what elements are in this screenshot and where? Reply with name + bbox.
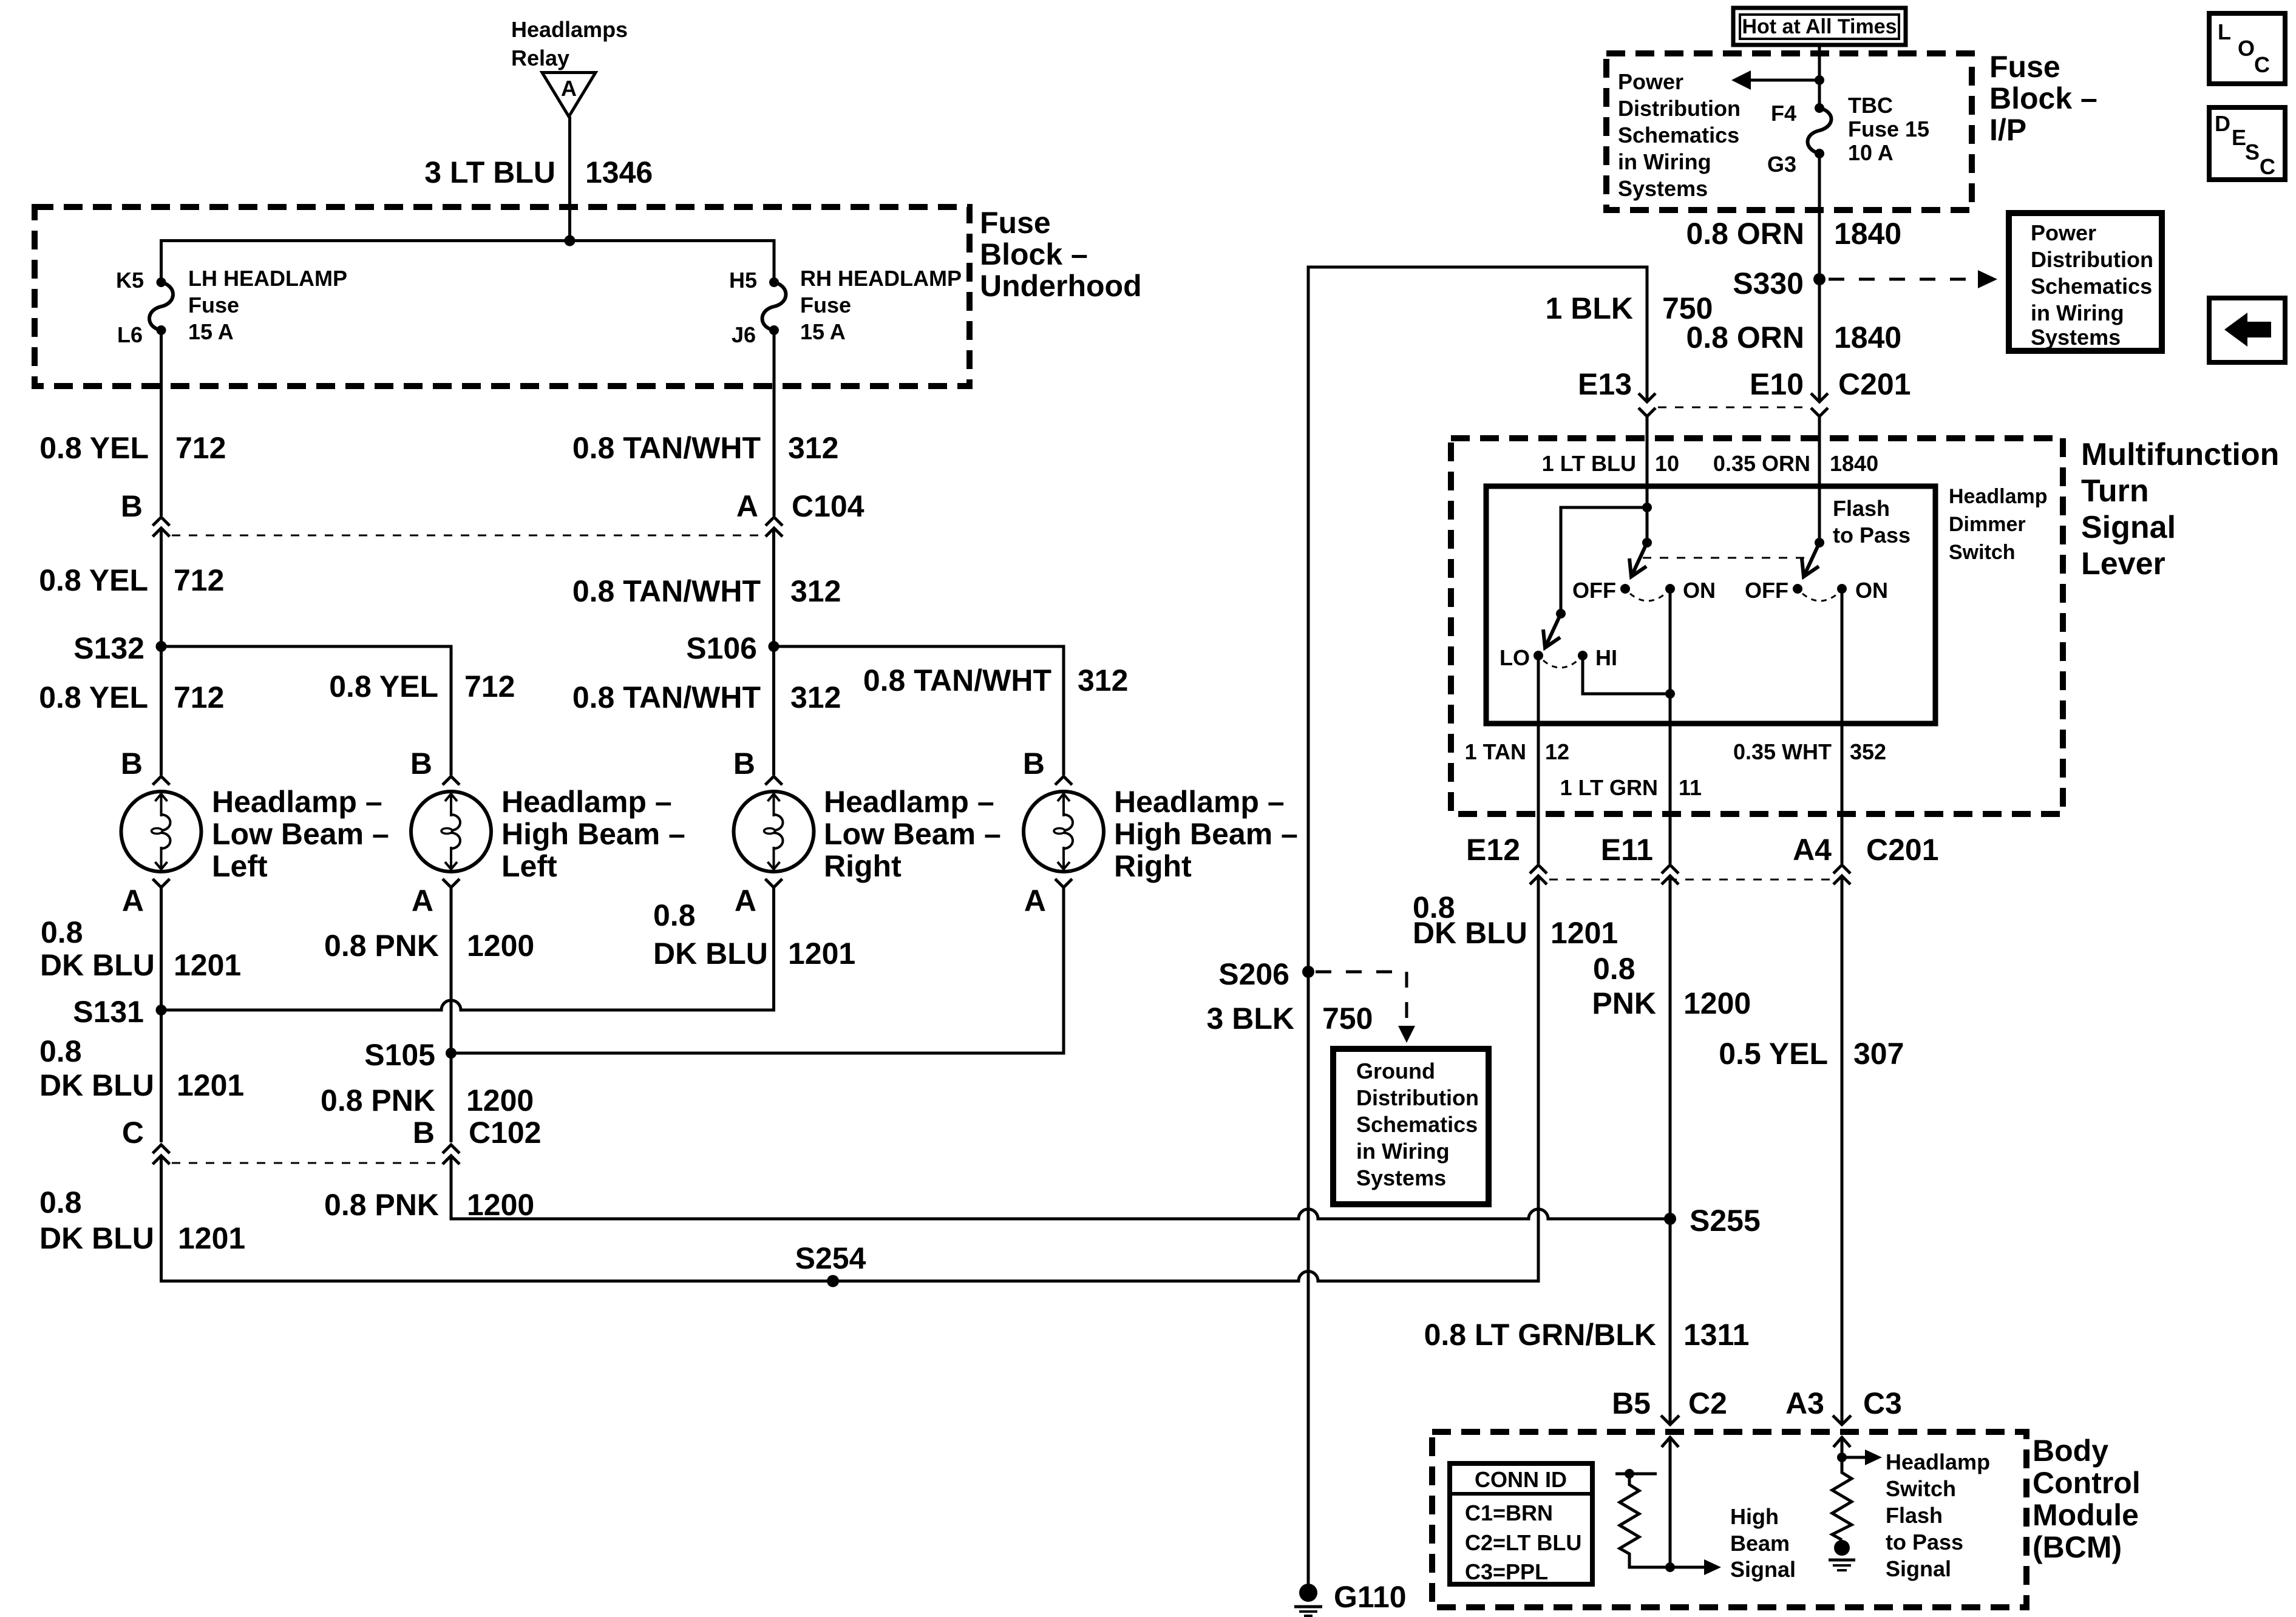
wire C104 to S132 <box>160 528 163 646</box>
pin A label lamp4 <box>1024 884 1046 918</box>
svg-text:1200: 1200 <box>1683 986 1751 1020</box>
svg-text:A: A <box>412 884 433 918</box>
pin A4 label <box>1793 833 1832 867</box>
pin B label lamp1 <box>121 747 143 781</box>
svg-text:ON: ON <box>1683 578 1716 603</box>
wire E10 into switch to flash pivot <box>1818 416 1821 543</box>
svg-text:Multifunction: Multifunction <box>2081 437 2279 472</box>
wire label 0.8 PNK 1200 lamp2 <box>324 929 534 963</box>
svg-text:Right: Right <box>1114 849 1192 883</box>
splice S132 <box>73 631 166 665</box>
svg-text:Headlamp: Headlamp <box>1886 1449 1990 1474</box>
svg-text:C2=LT BLU: C2=LT BLU <box>1465 1530 1581 1555</box>
svg-text:Switch: Switch <box>1949 541 2016 564</box>
svg-text:Systems: Systems <box>2031 325 2121 350</box>
BCM name <box>2033 1434 2141 1564</box>
headlamp switch arm pivot <box>1642 507 1652 547</box>
svg-text:1346: 1346 <box>585 155 653 189</box>
svg-text:HI: HI <box>1595 645 1617 670</box>
svg-text:Headlamp –: Headlamp – <box>501 785 672 819</box>
pin A3 label <box>1785 1386 1824 1420</box>
svg-text:0.35 WHT: 0.35 WHT <box>1733 739 1832 764</box>
svg-text:S254: S254 <box>795 1241 866 1275</box>
svg-text:D: D <box>2215 111 2230 136</box>
wire HI to ON junction <box>1583 656 1670 694</box>
wire label 0.5 YEL 307 <box>1719 1037 1904 1071</box>
wire A4 to A3 BCM <box>1841 878 1844 1425</box>
ground G110 label <box>1334 1580 1407 1614</box>
svg-text:E: E <box>2232 125 2246 150</box>
wire ON down to E11 <box>1669 589 1672 864</box>
svg-text:Headlamp –: Headlamp – <box>1114 785 1285 819</box>
svg-text:S206: S206 <box>1218 957 1289 991</box>
svg-text:in Wiring: in Wiring <box>1356 1139 1450 1164</box>
svg-text:S255: S255 <box>1690 1204 1761 1238</box>
wire label 3 BLK 750 <box>1207 1002 1373 1036</box>
fuse LH HEADLAMP 15A (K5-L6) <box>149 277 173 335</box>
contact ON headlamp switch <box>1665 578 1716 603</box>
svg-text:I/P: I/P <box>1989 113 2026 147</box>
svg-text:0.8: 0.8 <box>653 898 696 932</box>
ground distribution schematics box <box>1333 1049 1489 1204</box>
pin A label lamp3 <box>735 884 756 918</box>
svg-text:to Pass: to Pass <box>1886 1530 1963 1554</box>
svg-text:Block –: Block – <box>980 237 1088 271</box>
lamp Headlamp High Beam Left <box>411 776 491 887</box>
resistor flash to ground <box>1832 1457 1852 1540</box>
svg-text:10 A: 10 A <box>1848 140 1894 165</box>
svg-text:B: B <box>1023 747 1045 781</box>
wire J6 down to C104 <box>773 330 776 516</box>
pin E11 label <box>1601 833 1653 867</box>
wire label 0.8 DK BLU 1201 below C102 <box>39 1185 245 1255</box>
svg-text:15 A: 15 A <box>188 319 234 344</box>
junction high beam signal <box>1665 1562 1675 1572</box>
power feed arrow left <box>1731 70 1819 90</box>
wire label 1 BLK 750 <box>1546 291 1713 325</box>
BCM high beam input arrow up <box>1662 1437 1679 1567</box>
lamp1 name <box>212 785 389 883</box>
lamp Headlamp High Beam Right <box>1024 776 1104 887</box>
wire label 0.8 TAN/WHT 312 left of lamp <box>572 680 841 714</box>
svg-text:1200: 1200 <box>466 1083 534 1117</box>
wire lamp1 to S131 <box>160 887 163 1010</box>
svg-text:0.8 TAN/WHT: 0.8 TAN/WHT <box>572 574 761 608</box>
svg-text:to Pass: to Pass <box>1833 523 1911 547</box>
svg-text:S131: S131 <box>73 995 144 1029</box>
svg-text:Headlamp –: Headlamp – <box>212 785 382 819</box>
lamp3 name <box>824 785 1001 883</box>
pin K5 label <box>116 268 144 293</box>
wire label 0.8 TAN/WHT 312 branch <box>863 663 1129 697</box>
svg-text:L: L <box>2218 19 2231 44</box>
svg-text:S106: S106 <box>686 631 757 665</box>
svg-text:Right: Right <box>824 849 902 883</box>
svg-text:Low Beam –: Low Beam – <box>824 817 1001 851</box>
svg-text:Distribution: Distribution <box>2031 247 2153 272</box>
svg-text:DK BLU: DK BLU <box>39 1068 154 1102</box>
svg-text:0.8: 0.8 <box>39 1185 82 1219</box>
svg-text:0.8 ORN: 0.8 ORN <box>1686 320 1804 354</box>
pin E13 label <box>1578 367 1632 401</box>
relay A triangle symbol <box>542 73 596 117</box>
svg-text:Relay: Relay <box>511 46 569 70</box>
headlamp switch flash to pass signal label <box>1886 1449 1990 1581</box>
svg-text:High Beam –: High Beam – <box>1114 817 1298 851</box>
splice S206 <box>1218 957 1314 991</box>
flash arm with arrow <box>1802 543 1819 577</box>
connector A3 chevron <box>1833 1415 1851 1425</box>
svg-text:312: 312 <box>1078 663 1128 697</box>
svg-text:750: 750 <box>1322 1002 1373 1036</box>
svg-text:712: 712 <box>174 680 224 714</box>
svg-text:C1=BRN: C1=BRN <box>1465 1500 1553 1525</box>
svg-text:1200: 1200 <box>467 1188 534 1222</box>
fuse name RH HEADLAMP Fuse 15 A <box>800 266 962 344</box>
splice S105 <box>364 1038 457 1072</box>
connector C104 dashed line <box>172 535 763 537</box>
dimmer arm pivot <box>1556 609 1566 619</box>
svg-text:OFF: OFF <box>1572 578 1616 603</box>
wire S132 to left low beam <box>160 646 163 775</box>
wire G3 to S330 <box>1818 154 1821 279</box>
svg-text:3 LT BLU: 3 LT BLU <box>424 155 555 189</box>
svg-text:A: A <box>561 76 577 101</box>
dashed arc OFF-ON headlamp <box>1630 594 1665 601</box>
dashed arc OFF-ON flash <box>1802 594 1838 601</box>
svg-text:B: B <box>413 1116 435 1150</box>
connector C104 label <box>792 489 864 523</box>
svg-text:E12: E12 <box>1466 833 1520 867</box>
wire label 0.35 WHT 352 <box>1733 739 1886 764</box>
wire E11 to S255 <box>1669 878 1672 1219</box>
svg-text:Block –: Block – <box>1989 81 2097 115</box>
svg-text:G3: G3 <box>1767 152 1796 177</box>
contact OFF headlamp switch <box>1572 578 1630 603</box>
svg-text:312: 312 <box>790 574 841 608</box>
svg-text:Systems: Systems <box>1618 176 1708 201</box>
svg-text:S132: S132 <box>73 631 144 665</box>
svg-text:Fuse: Fuse <box>1989 50 2060 84</box>
wire C104 to S106 <box>772 528 775 646</box>
BCM pull-up stub high beam <box>1615 1469 1657 1479</box>
svg-text:Signal: Signal <box>2081 510 2176 545</box>
svg-text:H5: H5 <box>729 268 757 293</box>
svg-text:RH HEADLAMP: RH HEADLAMP <box>800 266 962 291</box>
flash arm pivot <box>1815 538 1824 547</box>
pin G3 label <box>1767 152 1796 177</box>
svg-text:C102: C102 <box>469 1116 542 1150</box>
svg-text:Headlamp –: Headlamp – <box>824 785 994 819</box>
splice S254 <box>795 1241 866 1287</box>
svg-text:A: A <box>1024 884 1046 918</box>
headlamp switch arm with arrow <box>1629 543 1647 577</box>
svg-text:0.8 YEL: 0.8 YEL <box>39 563 148 597</box>
svg-text:E11: E11 <box>1601 833 1653 867</box>
power distribution schematics box right <box>2009 213 2162 351</box>
svg-text:DK BLU: DK BLU <box>39 1221 154 1255</box>
svg-text:LO: LO <box>1500 645 1530 670</box>
pin H5 label <box>729 268 757 293</box>
fuse RH HEADLAMP 15A (H5-J6) <box>763 277 786 335</box>
wire lamp2 to S105 <box>450 887 453 1053</box>
svg-text:0.8 TAN/WHT: 0.8 TAN/WHT <box>572 431 761 465</box>
fuse TBC Fuse 15 10A (F4-G3) <box>1808 103 1832 158</box>
wire PNK bus to S255 with hops <box>451 1156 1670 1219</box>
svg-text:1 BLK: 1 BLK <box>1546 291 1633 325</box>
svg-text:11: 11 <box>1679 775 1702 800</box>
svg-text:A: A <box>736 489 758 523</box>
wire label 0.8 PNK 1200 below C102 <box>324 1188 534 1222</box>
svg-text:1201: 1201 <box>177 1068 244 1102</box>
BCM dashed box <box>1432 1432 2026 1607</box>
svg-text:E10: E10 <box>1750 367 1804 401</box>
svg-text:DK BLU: DK BLU <box>40 948 155 982</box>
splice S255 <box>1664 1204 1761 1238</box>
junction HI-ON <box>1665 689 1675 699</box>
svg-text:C: C <box>2254 52 2270 77</box>
svg-text:Flash: Flash <box>1886 1503 1943 1528</box>
svg-text:C3: C3 <box>1863 1386 1902 1420</box>
junction flash signal <box>1837 1453 1847 1462</box>
svg-text:0.8 YEL: 0.8 YEL <box>39 680 148 714</box>
svg-text:1200: 1200 <box>467 929 534 963</box>
svg-text:S105: S105 <box>364 1038 435 1072</box>
svg-text:(BCM): (BCM) <box>2033 1530 2122 1564</box>
svg-text:Lever: Lever <box>2081 546 2165 581</box>
wire E11 label 0.8 PNK 1200 <box>1592 952 1751 1020</box>
pin B label lamp3 <box>733 747 755 781</box>
wire LO down to E12 <box>1537 656 1540 864</box>
svg-text:0.8 YEL: 0.8 YEL <box>39 431 149 465</box>
svg-text:1 TAN: 1 TAN <box>1465 739 1526 764</box>
svg-text:15 A: 15 A <box>800 319 846 344</box>
svg-text:A: A <box>735 884 756 918</box>
switch internal wire to dimmer pivot <box>1561 507 1647 614</box>
lamp Headlamp Low Beam Right <box>734 776 814 887</box>
wire 1 BLK 750 from E13 to G110 <box>1308 267 1647 1584</box>
connector C102 left half <box>153 1145 170 1164</box>
junction dot for power feed arrow <box>1815 75 1824 85</box>
wire S106 branch to right high beam <box>774 646 1064 775</box>
svg-text:0.8: 0.8 <box>41 915 83 949</box>
svg-text:C201: C201 <box>1838 367 1911 401</box>
splice S131 <box>73 995 166 1029</box>
svg-text:DK BLU: DK BLU <box>653 937 768 971</box>
pin B5 label <box>1612 1386 1651 1420</box>
svg-text:Schematics: Schematics <box>2031 274 2152 299</box>
svg-text:Fuse: Fuse <box>188 293 239 317</box>
connector C201 label top <box>1838 367 1911 401</box>
svg-text:C2: C2 <box>1688 1386 1727 1420</box>
svg-text:0.35 ORN: 0.35 ORN <box>1713 451 1810 476</box>
svg-text:B: B <box>733 747 755 781</box>
svg-text:E13: E13 <box>1578 367 1632 401</box>
svg-text:1840: 1840 <box>1834 320 1901 354</box>
high beam signal label <box>1730 1504 1796 1582</box>
svg-text:0.8 LT GRN/BLK: 0.8 LT GRN/BLK <box>1424 1318 1656 1352</box>
contact ON flash <box>1837 578 1888 603</box>
fuse block underhood name <box>980 206 1142 303</box>
svg-text:1201: 1201 <box>178 1221 245 1255</box>
dashed arc LO-HI <box>1543 660 1578 668</box>
dashed reference from S206 to ground box <box>1316 972 1415 1043</box>
connector E13 at C201 <box>1639 393 1656 416</box>
svg-text:Left: Left <box>212 849 268 883</box>
connector E12 at C201 <box>1530 865 1547 884</box>
wire S330 to E10 <box>1818 279 1821 402</box>
svg-text:Dimmer: Dimmer <box>1949 513 2026 536</box>
svg-text:1201: 1201 <box>1550 916 1618 950</box>
svg-text:Body: Body <box>2033 1434 2108 1468</box>
connector C102 right half <box>443 1145 460 1164</box>
wire S105 down to C102 <box>450 1053 453 1142</box>
svg-text:Control: Control <box>2033 1466 2141 1500</box>
svg-text:OFF: OFF <box>1745 578 1788 603</box>
svg-text:712: 712 <box>464 670 515 703</box>
wire label 0.8 YEL 712 below C104 <box>39 563 224 597</box>
wire label 0.8 DK BLU 1201 lamp1 <box>40 915 241 982</box>
bus wire inside fuse block <box>161 241 775 283</box>
wire label 1 LT BLU 10 <box>1542 451 1679 476</box>
svg-text:312: 312 <box>788 431 838 465</box>
multifunction name <box>2081 437 2279 581</box>
power distribution note in I/P box <box>1618 69 1741 201</box>
wire label 3 LT BLU 1346 <box>424 155 653 189</box>
svg-text:C3=PPL: C3=PPL <box>1465 1559 1548 1584</box>
connector C102 label <box>469 1116 542 1150</box>
svg-text:K5: K5 <box>116 268 144 293</box>
connector C201 dashed line bottom <box>1549 879 1831 881</box>
fuse block underhood dashed box <box>35 207 970 386</box>
flash signal arrow <box>1842 1449 1882 1465</box>
svg-text:ON: ON <box>1855 578 1888 603</box>
svg-text:1 LT BLU: 1 LT BLU <box>1542 451 1636 476</box>
svg-text:Switch: Switch <box>1886 1476 1956 1501</box>
svg-text:F4: F4 <box>1771 101 1796 126</box>
svg-text:Underhood: Underhood <box>980 269 1142 303</box>
svg-text:1840: 1840 <box>1834 217 1901 251</box>
svg-text:Hot at All Times: Hot at All Times <box>1742 15 1897 38</box>
headlamp dimmer switch name <box>1949 485 2048 564</box>
pin C3 label <box>1863 1386 1902 1420</box>
BCM flash input arrow up <box>1833 1437 1850 1457</box>
svg-text:PNK: PNK <box>1592 986 1656 1020</box>
wire DK BLU bus to E12 with hop <box>161 878 1539 1281</box>
svg-text:C201: C201 <box>1866 833 1939 867</box>
svg-text:Schematics: Schematics <box>1356 1112 1478 1137</box>
svg-text:0.8 TAN/WHT: 0.8 TAN/WHT <box>572 680 761 714</box>
svg-text:Schematics: Schematics <box>1618 123 1739 147</box>
wire label 0.8 YEL 712 left <box>39 680 224 714</box>
svg-text:352: 352 <box>1850 739 1886 764</box>
svg-text:12: 12 <box>1545 739 1569 764</box>
pin L6 label <box>117 322 143 347</box>
pin A label lamp1 <box>122 884 144 918</box>
fuse block I/P name <box>1989 50 2097 147</box>
wire S106 to right low beam <box>772 646 775 775</box>
svg-text:Fuse: Fuse <box>980 206 1051 240</box>
pin F4 label <box>1771 101 1796 126</box>
wire label 0.8 ORN 1840 upper <box>1686 217 1901 251</box>
wire label 0.8 YEL 712 above C104 <box>39 431 226 465</box>
lamp2 name <box>501 785 685 883</box>
wire S105 to lamp4 <box>451 887 1064 1053</box>
wire label 0.8 TAN/WHT 312 above C104 <box>572 431 839 465</box>
dimmer arm with arrow <box>1543 614 1561 648</box>
wire label 1 LT GRN 11 <box>1560 775 1702 800</box>
wire S255 to B5 BCM <box>1669 1219 1672 1425</box>
ground symbol G110 <box>1294 1607 1322 1616</box>
wire label 0.8 DK BLU 1201 above C102 <box>39 1034 244 1102</box>
wire label 0.8 DK BLU 1201 lamp3 <box>653 898 855 971</box>
pin E10 label <box>1750 367 1804 401</box>
CONN ID table <box>1450 1463 1592 1584</box>
svg-text:B: B <box>410 747 432 781</box>
pin B label at C104 left <box>121 489 143 523</box>
ground stud flash <box>1834 1540 1850 1556</box>
ground G110 stud <box>1299 1584 1317 1602</box>
pin E12 label <box>1466 833 1520 867</box>
svg-text:B: B <box>121 489 143 523</box>
svg-text:B5: B5 <box>1612 1386 1651 1420</box>
svg-text:O: O <box>2238 36 2255 61</box>
svg-text:A3: A3 <box>1785 1386 1824 1420</box>
connector C201 label bottom <box>1866 833 1939 867</box>
svg-text:0.5 YEL: 0.5 YEL <box>1719 1037 1828 1071</box>
pin A label lamp2 <box>412 884 433 918</box>
svg-text:G110: G110 <box>1334 1580 1407 1614</box>
svg-text:Distribution: Distribution <box>1618 96 1741 121</box>
high beam signal arrow <box>1670 1559 1721 1575</box>
connector E10 at C201 <box>1811 393 1828 416</box>
svg-text:B: B <box>121 747 143 781</box>
svg-text:CONN ID: CONN ID <box>1475 1467 1567 1492</box>
svg-text:Distribution: Distribution <box>1356 1085 1479 1110</box>
svg-text:J6: J6 <box>732 322 756 347</box>
svg-text:Ground: Ground <box>1356 1059 1435 1083</box>
svg-text:Systems: Systems <box>1356 1165 1446 1190</box>
wire label 0.8 LT GRN/BLK 1311 <box>1424 1318 1750 1352</box>
wire label 0.35 ORN 1840 <box>1713 451 1878 476</box>
wire label 0.8 YEL 712 branch <box>329 670 515 703</box>
svg-text:Low Beam –: Low Beam – <box>212 817 389 851</box>
svg-text:1 LT GRN: 1 LT GRN <box>1560 775 1658 800</box>
relay label Headlamps Relay <box>511 17 628 70</box>
svg-text:Beam: Beam <box>1730 1531 1790 1556</box>
svg-text:Turn: Turn <box>2081 473 2149 509</box>
wire label 0.8 PNK 1200 above C102 <box>321 1083 534 1117</box>
svg-text:High: High <box>1730 1504 1779 1529</box>
svg-text:L6: L6 <box>117 322 143 347</box>
mechanical link dashed line <box>1643 557 1813 559</box>
wire S131 down to C102 <box>160 1010 163 1142</box>
wire S132 branch to left high beam <box>161 646 452 775</box>
svg-text:0.8: 0.8 <box>1593 952 1635 986</box>
svg-text:C104: C104 <box>792 489 864 523</box>
LOC box <box>2209 13 2285 84</box>
svg-text:in Wiring: in Wiring <box>1618 149 1711 174</box>
svg-text:712: 712 <box>175 431 226 465</box>
svg-text:TBC: TBC <box>1848 93 1893 118</box>
pin C label at C102 <box>122 1116 144 1150</box>
wire flash ON down to A4 <box>1841 589 1844 864</box>
connector C104 left half <box>153 517 170 537</box>
pin B label lamp2 <box>410 747 432 781</box>
connector C102 dashed line <box>172 1162 441 1164</box>
contact OFF flash <box>1745 578 1802 603</box>
wire E12 label 0.8 DK BLU 1201 <box>1413 890 1618 950</box>
